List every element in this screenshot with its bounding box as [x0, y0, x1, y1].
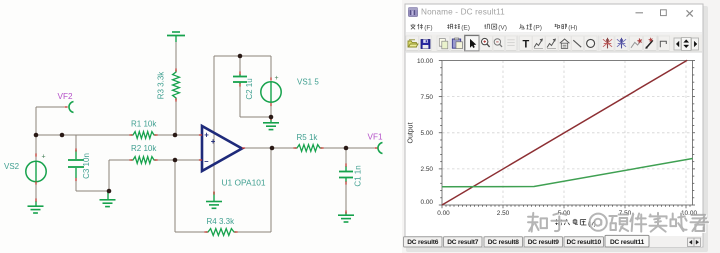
svg-text:−: −	[204, 157, 209, 166]
svg-text:DC result8: DC result8	[488, 239, 520, 246]
svg-text:Noname - DC result11: Noname - DC result11	[421, 8, 505, 17]
svg-text:(H): (H)	[568, 25, 577, 32]
svg-text:10.00: 10.00	[417, 58, 433, 65]
svg-text:C3 10n: C3 10n	[82, 153, 91, 179]
svg-text:+: +	[42, 154, 46, 161]
svg-text:DC result7: DC result7	[447, 239, 479, 246]
svg-text:DC result6: DC result6	[407, 239, 439, 246]
svg-text:DC result10: DC result10	[567, 239, 602, 246]
svg-text:T: T	[523, 39, 530, 51]
svg-text:+: +	[204, 130, 209, 139]
svg-text:DC result9: DC result9	[528, 239, 560, 246]
svg-text:R1 10k: R1 10k	[131, 120, 157, 129]
svg-text:7.50: 7.50	[421, 94, 434, 101]
svg-text:+: +	[275, 75, 279, 82]
svg-text:VF1: VF1	[368, 133, 383, 142]
svg-text:(F): (F)	[424, 25, 432, 32]
svg-text:2.50: 2.50	[421, 166, 434, 173]
svg-text:R3 3.3k: R3 3.3k	[157, 71, 166, 100]
svg-text:(V): (V)	[498, 25, 507, 32]
svg-text:Output: Output	[408, 122, 415, 143]
svg-text:VS1 5: VS1 5	[297, 78, 319, 87]
svg-text:C1 1n: C1 1n	[354, 165, 363, 186]
svg-text:DC result11: DC result11	[610, 239, 645, 246]
svg-text:0.00: 0.00	[437, 210, 450, 217]
svg-text:R5 1k: R5 1k	[297, 133, 319, 142]
svg-text:R2 10k: R2 10k	[131, 144, 157, 153]
svg-text:2.50: 2.50	[497, 210, 510, 217]
svg-text:C2 1u: C2 1u	[245, 78, 254, 99]
svg-text:VF2: VF2	[58, 92, 73, 101]
svg-text:U1 OPA101: U1 OPA101	[222, 178, 266, 188]
svg-text:R4 3.3k: R4 3.3k	[207, 217, 236, 226]
svg-text:5.00: 5.00	[421, 130, 434, 137]
svg-text:+: +	[211, 137, 216, 146]
svg-text:(E): (E)	[461, 25, 470, 32]
svg-text:0.00: 0.00	[421, 199, 434, 206]
svg-text:VS2: VS2	[4, 162, 20, 171]
svg-text:(P): (P)	[533, 25, 542, 32]
